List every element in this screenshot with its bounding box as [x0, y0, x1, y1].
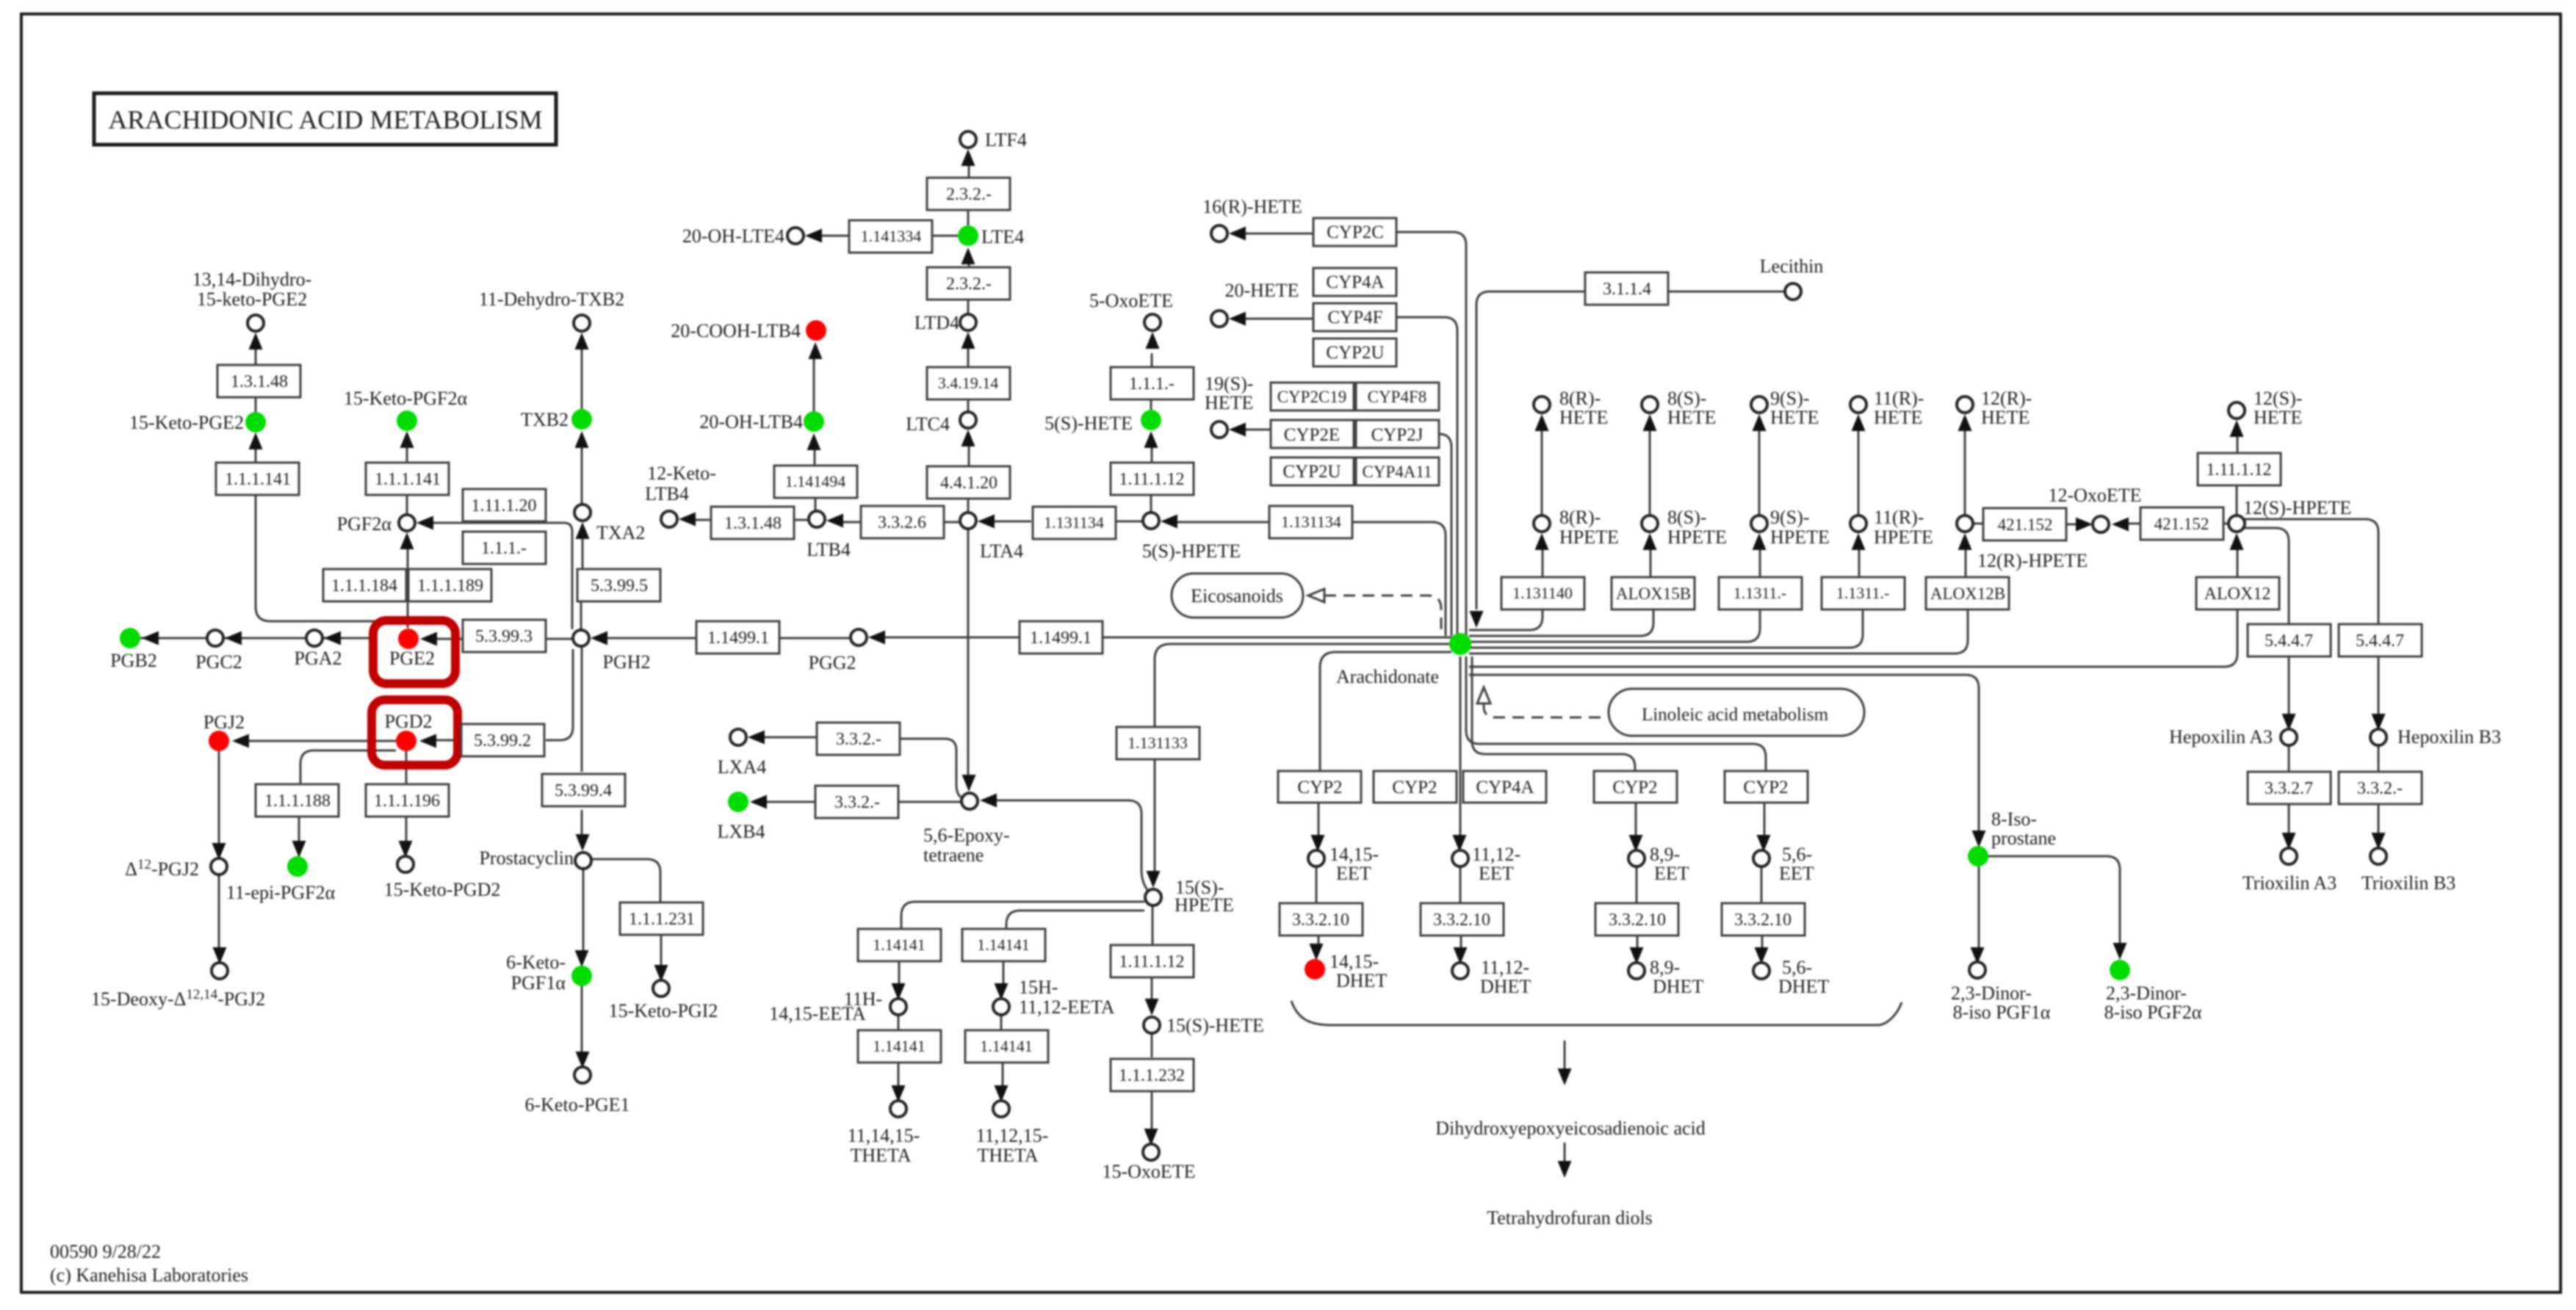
svg-text:1.3.1.48: 1.3.1.48 — [724, 514, 782, 533]
arrowhead into 8,9-EET — [1629, 835, 1643, 852]
svg-text:8-Iso-: 8-Iso- — [1991, 808, 2037, 830]
arrowhead into PGC2 — [225, 632, 242, 645]
svg-text:Tetrahydrofuran diols: Tetrahydrofuran diols — [1487, 1207, 1653, 1228]
svg-text:DHET: DHET — [1653, 976, 1703, 997]
svg-text:CYP2C19: CYP2C19 — [1277, 388, 1347, 406]
enzyme box CYP4A11 — [1356, 457, 1439, 485]
arrowhead into LTA4 right — [978, 515, 995, 529]
compound 11(R)-HPETE — [1850, 515, 1866, 532]
enzyme box 1.1.1.231 — [620, 902, 703, 935]
compound LTE4 (green) — [958, 225, 978, 246]
arrowhead into 5,6-EET — [1757, 835, 1771, 852]
enzyme box 1.1.1.- a — [463, 532, 546, 564]
enzyme box 1.14.14.1 b — [962, 929, 1045, 961]
svg-text:1.11.1.12: 1.11.1.12 — [1119, 470, 1184, 489]
enzyme box 1.1.1.141 a — [216, 463, 299, 495]
svg-text:2.3.2.-: 2.3.2.- — [946, 275, 992, 294]
enzyme box 5.3.99.4 — [542, 774, 625, 806]
enzyme box 1.1499.1 a — [696, 621, 779, 654]
wire 12(R) col — [1965, 430, 1966, 577]
arrowhead into 15-Keto-PGF2a dot — [400, 431, 414, 448]
svg-text:CYP2U: CYP2U — [1282, 462, 1341, 482]
svg-text:EET: EET — [1336, 863, 1371, 884]
svg-text:20-OH-LTB4: 20-OH-LTB4 — [699, 411, 803, 433]
wire LTA4 down — [967, 529, 970, 775]
wire LTB4 to 12-keto — [695, 519, 809, 521]
svg-text:4.4.1.20: 4.4.1.20 — [940, 474, 997, 493]
open arrowhead into Eicosanoids — [1308, 589, 1324, 602]
enzyme box 5.4.4.7 a — [2248, 624, 2331, 656]
svg-text:CYP2: CYP2 — [1297, 778, 1342, 797]
arrowhead into 11,12-EET — [1453, 835, 1467, 852]
svg-text:TXA2: TXA2 — [596, 522, 645, 543]
svg-text:1.1.1.141: 1.1.1.141 — [225, 470, 291, 489]
arrowhead into 14,15-EET — [1311, 835, 1325, 852]
wire hub to ALOX12 — [1469, 609, 2237, 667]
wire PGE2 to PGF2a — [407, 549, 409, 628]
svg-text:00590 9/28/22: 00590 9/28/22 — [50, 1241, 161, 1262]
enzyme box ALOX15B — [1612, 577, 1695, 609]
svg-text:15H-: 15H- — [1019, 977, 1058, 998]
enzyme box 3.3.2.- hep — [2339, 772, 2422, 804]
svg-text:CYP4A: CYP4A — [1476, 778, 1534, 797]
wire CYP2E to 19S-HETE — [1245, 429, 1271, 431]
svg-text:CYP2: CYP2 — [1743, 778, 1788, 797]
compound PGE2 (red) — [398, 629, 419, 649]
arrowhead into Dihydroxy text — [1558, 1068, 1572, 1085]
compound 12(S)-HPETE — [2229, 515, 2245, 532]
svg-text:CYP2C: CYP2C — [1327, 222, 1384, 242]
svg-text:LTB4: LTB4 — [807, 539, 851, 560]
svg-text:PGB2: PGB2 — [110, 650, 157, 671]
wire CYP4F to hub — [1397, 317, 1457, 636]
svg-text:11(R)-: 11(R)- — [1874, 507, 1924, 528]
compound LTD4 — [960, 314, 976, 330]
compound 12-OxoETE — [2093, 516, 2109, 532]
svg-text:LXB4: LXB4 — [718, 821, 765, 842]
wire brace to dihydroxy — [1564, 1041, 1566, 1069]
svg-text:8(R)-: 8(R)- — [1559, 507, 1601, 528]
svg-text:15-keto-PGE2: 15-keto-PGE2 — [197, 289, 307, 310]
svg-text:1.1311.-: 1.1311.- — [1733, 584, 1787, 602]
svg-text:LTF4: LTF4 — [985, 129, 1027, 151]
compound 15(S)-HETE — [1144, 1017, 1160, 1033]
svg-text:5.3.99.4: 5.3.99.4 — [555, 781, 612, 800]
wire TXA2 to TXB2 — [581, 447, 583, 504]
svg-text:12(R)-HPETE: 12(R)-HPETE — [1977, 550, 2088, 571]
svg-text:5(S)-HETE: 5(S)-HETE — [1045, 413, 1133, 434]
label 11(R)-HETE — [1874, 388, 1924, 428]
wire 5S col up — [1151, 353, 1152, 513]
compound 5(S)-HPETE — [1143, 513, 1159, 529]
svg-text:HETE: HETE — [1770, 407, 1819, 428]
svg-text:THETA: THETA — [977, 1145, 1038, 1166]
svg-text:1.1.1.231: 1.1.1.231 — [629, 910, 695, 929]
svg-text:THETA: THETA — [850, 1145, 911, 1166]
arrowhead into 5S-HETE — [1144, 431, 1158, 448]
arrowhead into LXB4 — [750, 795, 767, 809]
enzyme box 3.3.2.10 b — [1421, 903, 1504, 936]
enzyme box 1.11.1.12 c — [2198, 453, 2281, 485]
label 8(R)-HETE — [1559, 388, 1608, 428]
enzyme box CYP2C — [1313, 218, 1396, 246]
svg-text:11-epi-PGF2α: 11-epi-PGF2α — [226, 882, 336, 903]
enzyme box 4.4.1.20 — [927, 466, 1010, 499]
enzyme box CYP2U a — [1313, 339, 1396, 366]
highlight rect PGD2 — [372, 700, 458, 765]
svg-text:15-Deoxy-Δ12,14-PGJ2: 15-Deoxy-Δ12,14-PGJ2 — [91, 987, 265, 1010]
arrowhead into 5-OxoETE — [1146, 332, 1160, 349]
wire 15S-HPETE down — [1152, 905, 1152, 999]
compound 20-OH-LTE4 — [787, 228, 804, 244]
wire LTE4 to 20-OH-LTE4 — [821, 235, 958, 237]
oval Linoleic acid metabolism — [1609, 689, 1864, 736]
svg-text:8-iso PGF2α: 8-iso PGF2α — [2104, 1002, 2202, 1023]
wire 12S col — [2237, 436, 2237, 515]
wire 3.3.2.-a to LXA4 — [764, 737, 817, 739]
compound PGA2 — [306, 630, 322, 646]
svg-text:1.14141: 1.14141 — [873, 1037, 926, 1055]
label 5,6-EET — [1779, 844, 1814, 884]
arrowhead into 8,9-DHET — [1630, 947, 1644, 964]
svg-text:DHET: DHET — [1336, 970, 1387, 991]
svg-text:1.14141: 1.14141 — [980, 1037, 1033, 1055]
compound 15-Keto-PGE2 (green) — [245, 412, 266, 433]
svg-text:HETE: HETE — [1874, 407, 1922, 428]
enzyme box 2.3.2.- a — [927, 178, 1010, 210]
svg-text:2.3.2.-: 2.3.2.- — [946, 185, 992, 204]
label 8(R)-HPETE — [1559, 507, 1619, 548]
svg-text:14,15-: 14,15- — [1330, 951, 1379, 972]
arrowhead into 12S-HETE — [2230, 420, 2244, 437]
enzyme box 1.1.1.232 — [1111, 1059, 1194, 1091]
svg-text:8,9-: 8,9- — [1650, 957, 1680, 978]
label 15(S)-HPETE — [1175, 877, 1234, 916]
svg-text:5.4.4.7: 5.4.4.7 — [2356, 632, 2404, 651]
arrowhead into 9(S)-HETE — [1753, 414, 1767, 431]
enzyme box 1.1.1.184 — [323, 569, 406, 601]
svg-text:1.1.1.189: 1.1.1.189 — [417, 576, 483, 596]
svg-text:15(S)-HETE: 15(S)-HETE — [1166, 1015, 1264, 1036]
compound LTF4 — [960, 131, 976, 148]
svg-text:5(S)-HPETE: 5(S)-HPETE — [1142, 540, 1241, 562]
svg-text:EET: EET — [1479, 863, 1514, 884]
label 8(S)-HPETE — [1667, 507, 1727, 548]
wire 5S-HPETE to LTA4 line — [994, 521, 1143, 523]
arrowhead into 14,15-DHET — [1310, 944, 1324, 960]
label 8,9-EET — [1650, 844, 1689, 884]
svg-text:Trioxilin B3: Trioxilin B3 — [2362, 872, 2456, 894]
svg-text:CYP4A11: CYP4A11 — [1363, 463, 1432, 481]
enzyme box 4.2.1.152 a — [1983, 508, 2066, 540]
wire 11H col — [898, 961, 899, 1086]
compound 11,12-EET — [1452, 850, 1468, 866]
wire hub to ALOX15B col — [1469, 609, 1653, 636]
enzyme box 3.4.19.14 — [927, 367, 1010, 399]
svg-text:1.1.1.188: 1.1.1.188 — [264, 792, 331, 811]
label 13,14-Dihydro-15-keto-PGE2 — [192, 269, 311, 310]
wire 5,6 EET-DHET — [1761, 866, 1762, 948]
svg-text:1.3.1.48: 1.3.1.48 — [231, 372, 288, 391]
enzyme box CYP2E — [1271, 420, 1354, 448]
svg-text:16(R)-HETE: 16(R)-HETE — [1202, 196, 1302, 217]
compound 15(S)-HPETE — [1145, 889, 1161, 905]
svg-text:5-OxoETE: 5-OxoETE — [1089, 290, 1173, 311]
svg-text:1.141494: 1.141494 — [785, 472, 846, 491]
compound delta12-PGJ2 — [211, 858, 227, 875]
arrowhead into 11,12,15-THETA — [995, 1085, 1009, 1102]
arrowhead into 20-HETE — [1229, 312, 1246, 326]
arrowhead into 11(R)-HETE — [1852, 414, 1866, 431]
wire TXB2 to 11-dehydro — [581, 349, 583, 409]
arrowhead into 5S-HPETE right — [1161, 515, 1177, 529]
arrowhead into LTF4 — [962, 149, 975, 166]
compound 6-Keto-PGE1 — [574, 1067, 591, 1083]
highlight rect PGE2 — [373, 620, 455, 684]
arrowhead into 11-Dehydro-TXB2 — [575, 333, 589, 350]
svg-text:13,14-Dihydro-: 13,14-Dihydro- — [192, 269, 311, 290]
wire prostacyclin down — [582, 869, 583, 1052]
svg-text:15-Keto-PGD2: 15-Keto-PGD2 — [384, 879, 501, 900]
compound Arachidonate hub (green) — [1449, 633, 1471, 655]
label 8,9-DHET — [1650, 957, 1703, 997]
wire PGH2 to PGF2a — [431, 523, 572, 629]
svg-text:12(S)-: 12(S)- — [2254, 388, 2302, 409]
compound 8,9-EET — [1628, 850, 1645, 866]
arrowhead into 15-Keto-PGD2 — [399, 841, 413, 858]
svg-text:TXB2: TXB2 — [521, 409, 569, 430]
svg-text:1.1.1.232: 1.1.1.232 — [1119, 1066, 1185, 1085]
compound 2,3-Dinor-8-iso-PGF1a — [1969, 962, 1985, 978]
arrowhead into LXA4 — [748, 731, 765, 745]
wire 3.3.2.-b to LXB4 — [766, 801, 816, 803]
arrowhead into 20-OH-LTE4 — [805, 229, 822, 243]
wire hepoxilin B3 col — [2378, 656, 2380, 833]
svg-text:ALOX12B: ALOX12B — [1930, 585, 2005, 603]
label 11(R)-HPETE — [1874, 507, 1933, 548]
label 14,15-EET — [1330, 844, 1379, 884]
svg-text:8,9-: 8,9- — [1650, 844, 1680, 865]
svg-text:LTD4: LTD4 — [914, 312, 959, 333]
svg-text:PGF1α: PGF1α — [511, 972, 566, 994]
compound 5,6-DHET — [1753, 963, 1769, 979]
arrowhead into Hepoxilin B3 — [2372, 714, 2386, 731]
compound 19(S)-HETE — [1211, 421, 1227, 438]
enzyme box 1.1.1.- b — [1111, 367, 1194, 399]
arrowhead into 15-Keto-PGE2 dot — [249, 433, 263, 449]
svg-text:HETE: HETE — [1667, 407, 1716, 428]
enzyme box 3.3.2.10 c — [1595, 903, 1678, 936]
svg-text:PGD2: PGD2 — [384, 711, 432, 732]
label 11,12,15-THETA — [976, 1125, 1049, 1166]
svg-text:5,6-Epoxy-: 5,6-Epoxy- — [923, 825, 1010, 846]
svg-text:Dihydroxyepoxyeicosadienoic ac: Dihydroxyepoxyeicosadienoic acid — [1435, 1118, 1706, 1139]
arrowhead into PGF2a bottom — [400, 532, 414, 549]
arrowhead into 20-OH-LTB4 — [807, 433, 821, 450]
wire hepoxilin A3 col — [2288, 656, 2290, 833]
compound 8(R)-HETE — [1534, 397, 1550, 413]
svg-text:Hepoxilin B3: Hepoxilin B3 — [2398, 726, 2501, 748]
svg-text:Lecithin: Lecithin — [1760, 256, 1824, 277]
arrowhead into 16(R)-HETE — [1229, 227, 1246, 241]
enzyme box CYP2 8,9 — [1594, 771, 1677, 803]
svg-text:20-OH-LTE4: 20-OH-LTE4 — [682, 225, 784, 247]
wire PGE2 to 5.3.99.3 — [435, 638, 572, 640]
arrowhead into 2,3-dinor-PGF1a — [1971, 947, 1985, 964]
svg-text:11,12-: 11,12- — [1472, 844, 1520, 865]
compound 15-Keto-PGF2a (green) — [397, 410, 417, 431]
compound 20-COOH-LTB4 (red) — [806, 320, 826, 341]
arrowhead into 2,3-dinor-PGF2a — [2113, 943, 2127, 960]
svg-text:11,12-EETA: 11,12-EETA — [1019, 996, 1115, 1018]
enzyme box 5.3.99.3 — [463, 620, 546, 652]
svg-text:12-OxoETE: 12-OxoETE — [2048, 485, 2141, 506]
svg-text:CYP2E: CYP2E — [1284, 425, 1340, 445]
svg-text:HPETE: HPETE — [1559, 526, 1619, 548]
svg-text:1.131133: 1.131133 — [1128, 734, 1188, 752]
arrowhead into 12S-HPETE from ALOX12 — [2230, 533, 2244, 550]
enzyme box 1.14.14.94 — [774, 466, 857, 498]
svg-text:3.3.2.-: 3.3.2.- — [836, 730, 881, 749]
svg-text:14,15-EETA: 14,15-EETA — [769, 1003, 866, 1024]
compound 20-OH-LTB4 (green) — [804, 411, 824, 432]
arrowhead into 6-Keto-PGF1a — [575, 950, 589, 967]
arrowhead into 11,14,15-THETA — [892, 1085, 906, 1102]
svg-text:PGF2α: PGF2α — [337, 513, 392, 535]
enzyme box 1.13.11.40 — [1501, 577, 1584, 609]
enzyme box 3.3.2.10 d — [1722, 903, 1805, 936]
arrowhead into 15S-HETE — [1145, 999, 1159, 1016]
arrowhead into 12-Keto-LTB4 — [679, 513, 696, 526]
compound Prostacyclin — [575, 853, 591, 869]
wire hub to 1.13.11.40 col — [1469, 609, 1543, 630]
compound PGB2 (green) — [120, 628, 140, 648]
compound 15-Keto-PGI2 — [653, 980, 669, 996]
svg-text:1.1499.1: 1.1499.1 — [707, 629, 769, 648]
svg-text:Trioxilin A3: Trioxilin A3 — [2243, 872, 2337, 894]
enzyme box CYP2 11,12 — [1374, 771, 1457, 803]
wire 14,15 EET-DHET — [1316, 866, 1318, 944]
arrowhead into PGG2 — [868, 631, 885, 645]
svg-text:6-Keto-PGE1: 6-Keto-PGE1 — [525, 1094, 630, 1115]
arrowhead into 15H-EETA circle — [995, 983, 1009, 1000]
svg-text:5,6-: 5,6- — [1782, 844, 1812, 865]
svg-text:12(S)-HPETE: 12(S)-HPETE — [2243, 497, 2351, 518]
arrowhead into PGA2 — [324, 632, 341, 645]
arrowhead into PGH2 — [591, 632, 607, 645]
svg-text:2,3-Dinor-: 2,3-Dinor- — [2106, 982, 2187, 1004]
wire hub to 1.13.11.- col — [1469, 609, 1760, 642]
compound 5,6-EET — [1753, 850, 1769, 866]
svg-text:DHET: DHET — [1480, 976, 1531, 997]
svg-text:1.1.1.141: 1.1.1.141 — [375, 470, 441, 489]
svg-text:1.1.1.-: 1.1.1.- — [1129, 374, 1175, 394]
svg-text:3.3.2.10: 3.3.2.10 — [1609, 911, 1666, 930]
arrowhead into 6-Keto-PGE1 — [576, 1052, 590, 1068]
wire PGH2 to prostacyclin — [581, 646, 583, 834]
arrowhead into 5,6-epoxytetraene right — [980, 794, 997, 808]
wire PGG2 to hub — [883, 637, 1451, 639]
svg-text:LTA4: LTA4 — [980, 540, 1023, 562]
compound 5-OxoETE — [1144, 314, 1161, 330]
svg-text:1.11.1.20: 1.11.1.20 — [471, 496, 536, 515]
enzyme box CYP4F — [1313, 303, 1396, 331]
arrowhead into 15-OxoETE — [1144, 1129, 1158, 1146]
svg-text:PGJ2: PGJ2 — [203, 712, 245, 733]
wire 1.13.11.34b to 5S-HPETE — [1177, 521, 1270, 524]
enzyme box CYP2 14,15 — [1278, 771, 1361, 803]
enzyme box 1.14.14.1 c — [858, 1030, 941, 1063]
svg-text:EET: EET — [1779, 863, 1814, 884]
wire 1.13.11.34b to hub — [1352, 522, 1446, 636]
compound PGC2 — [207, 630, 223, 646]
arrowhead into 20-COOH-LTB4 — [809, 342, 823, 359]
wire dashed to Linoleic oval — [1484, 703, 1607, 717]
wire 12S-HPETE to 5.4.4.7b — [2245, 519, 2378, 624]
svg-text:CYP2J: CYP2J — [1371, 425, 1424, 445]
compound 2,3-Dinor-8-iso-PGF2a (green) — [2110, 960, 2130, 980]
svg-text:421.152: 421.152 — [1998, 515, 2053, 534]
compound 11,14,15-THETA — [890, 1101, 906, 1117]
enzyme box 3.1.1.4 — [1585, 272, 1668, 305]
wire 12S-HPETE to 5.4.4.7a — [2244, 528, 2289, 624]
svg-text:ARACHIDONIC ACID METABOLISM: ARACHIDONIC ACID METABOLISM — [108, 105, 542, 134]
compound PGD2 (red) — [396, 731, 416, 751]
label 12-Keto-LTB4 — [645, 463, 716, 504]
svg-text:5.3.99.5: 5.3.99.5 — [591, 576, 648, 596]
svg-text:20-COOH-LTB4: 20-COOH-LTB4 — [671, 320, 801, 341]
open arrowhead toward hub (linoleic) — [1477, 687, 1490, 703]
svg-text:Linoleic acid metabolism: Linoleic acid metabolism — [1642, 705, 1829, 725]
svg-text:ALOX15B: ALOX15B — [1616, 585, 1691, 603]
svg-text:1.1.1.-: 1.1.1.- — [481, 539, 527, 558]
arrowhead into LTD4 — [962, 332, 975, 349]
svg-text:14,15-: 14,15- — [1330, 844, 1379, 865]
svg-text:3.1.1.4: 3.1.1.4 — [1603, 280, 1651, 299]
wire hub to 8,9 col — [1472, 656, 1636, 836]
svg-text:1.131134: 1.131134 — [1281, 513, 1341, 531]
wire PGD2 to 15-keto-PGD2 — [405, 751, 408, 842]
enzyme box 1.13.11.- b — [1822, 577, 1905, 609]
wire 5,6-ep to 3.3.2.-a — [901, 739, 963, 798]
wire 8(S) col — [1650, 430, 1650, 577]
wire ALOX12 to 12S-HPETE — [2237, 549, 2239, 577]
label 2,3-Dinor-8-iso PGF2a — [2104, 982, 2202, 1023]
wire 15-keto-PGF2a chain — [406, 447, 408, 514]
svg-text:Δ12-PGJ2: Δ12-PGJ2 — [125, 857, 199, 880]
wire 9(S) col — [1759, 430, 1760, 577]
enzyme box 1.11.1.12 a — [1111, 463, 1194, 495]
svg-text:20-HETE: 20-HETE — [1224, 280, 1299, 301]
enzyme box 1.13.11.34 a — [1033, 507, 1116, 539]
svg-text:5,6-: 5,6- — [1782, 957, 1812, 978]
compound 11(R)-HETE — [1850, 397, 1866, 413]
svg-text:2,3-Dinor-: 2,3-Dinor- — [1951, 982, 2032, 1004]
label 19(S)-HETE — [1205, 373, 1253, 413]
svg-text:19(S)-: 19(S)- — [1205, 373, 1253, 394]
compound Hepoxilin B3 — [2370, 729, 2386, 745]
label 14,15-DHET — [1330, 951, 1387, 991]
wire PGH2 to 1.1499.1 — [605, 637, 850, 640]
arrowhead into hub from lecithin — [1470, 611, 1484, 628]
enzyme box CYP2U b — [1271, 457, 1354, 485]
enzyme box 5.3.99.2 — [461, 724, 544, 756]
enzyme box 3.3.2.10 a — [1280, 903, 1363, 936]
compound 12(R)-HETE — [1957, 397, 1973, 413]
compound 5(S)-HETE (green) — [1141, 410, 1161, 430]
arrowhead into 15-Keto-PGI2 — [654, 965, 668, 982]
svg-text:prostane: prostane — [1991, 828, 2056, 849]
